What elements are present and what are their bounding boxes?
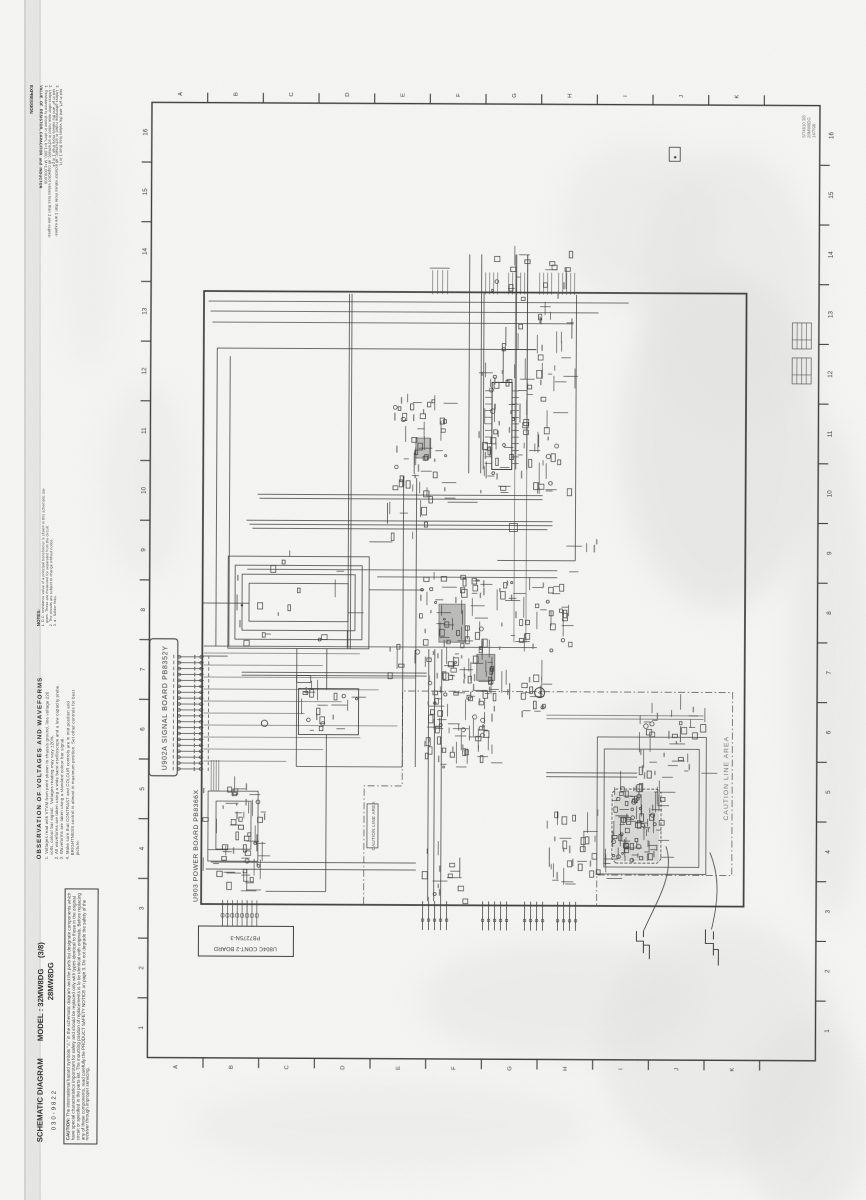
svg-text:5: 5	[139, 787, 146, 791]
svg-text:C: C	[284, 1065, 290, 1070]
svg-text:K: K	[735, 95, 741, 99]
svg-text:CAUTION LINE AREA: CAUTION LINE AREA	[723, 736, 730, 821]
svg-text:10: 10	[141, 486, 148, 494]
svg-text:PB7275N-3: PB7275N-3	[230, 934, 260, 940]
svg-text:4: 4	[825, 850, 832, 854]
svg-text:7: 7	[826, 671, 833, 675]
svg-text:H: H	[568, 94, 574, 98]
svg-text:U903 POWER BOARD PB8366X: U903 POWER BOARD PB8366X	[193, 789, 201, 902]
svg-text:14: 14	[828, 251, 835, 259]
svg-text:11: 11	[827, 430, 834, 437]
svg-text:9: 9	[826, 551, 833, 555]
svg-text:13: 13	[141, 307, 148, 315]
svg-text:J: J	[674, 1068, 680, 1071]
svg-text:K: K	[730, 1068, 736, 1072]
svg-text:10: 10	[827, 490, 834, 498]
svg-text:F: F	[456, 93, 462, 97]
svg-text:13: 13	[827, 311, 834, 319]
svg-text:6: 6	[825, 730, 832, 734]
svg-text:B: B	[229, 1065, 235, 1069]
svg-text:U902A SIGNAL BOARD PB8352Y: U902A SIGNAL BOARD PB8352Y	[162, 645, 170, 770]
svg-text:16: 16	[828, 132, 835, 140]
svg-text:1: 1	[824, 1029, 831, 1033]
svg-text:I: I	[623, 95, 629, 97]
svg-text:7: 7	[140, 667, 147, 671]
svg-text:15: 15	[142, 188, 149, 196]
svg-text:14: 14	[142, 248, 149, 256]
svg-text:U804C CONT-2 BOARD: U804C CONT-2 BOARD	[214, 945, 277, 951]
svg-text:2: 2	[138, 966, 145, 970]
svg-text:D: D	[345, 93, 351, 97]
svg-text:G: G	[507, 1066, 513, 1071]
svg-text:I: I	[618, 1068, 624, 1070]
svg-text:F: F	[451, 1066, 457, 1070]
svg-text:5: 5	[825, 790, 832, 794]
svg-text:D: D	[340, 1066, 346, 1070]
svg-text:E: E	[396, 1066, 402, 1070]
svg-text:6: 6	[139, 727, 146, 731]
svg-text:14/7/98: 14/7/98	[811, 123, 816, 138]
svg-text:11: 11	[141, 427, 148, 434]
svg-text:8: 8	[826, 611, 833, 615]
svg-text:12: 12	[827, 370, 834, 378]
svg-text:12: 12	[141, 367, 148, 375]
svg-text:9: 9	[140, 548, 147, 552]
svg-text:A: A	[173, 1065, 179, 1069]
svg-text:1: 1	[138, 1025, 145, 1029]
svg-text:E: E	[401, 93, 407, 97]
svg-text:J: J	[679, 95, 685, 98]
svg-text:C: C	[289, 92, 295, 97]
svg-text:3: 3	[825, 909, 832, 913]
svg-text:3: 3	[139, 906, 146, 910]
svg-text:8: 8	[140, 607, 147, 611]
svg-text:H: H	[563, 1067, 569, 1071]
svg-text:15: 15	[828, 191, 835, 199]
svg-text:4: 4	[139, 846, 146, 850]
svg-text:2: 2	[824, 969, 831, 973]
svg-text:A: A	[178, 92, 184, 96]
svg-text:16: 16	[142, 128, 149, 136]
svg-text:B: B	[234, 92, 240, 96]
svg-text:G: G	[512, 93, 518, 98]
svg-text:CAUTION LINE AREA: CAUTION LINE AREA	[371, 801, 376, 851]
